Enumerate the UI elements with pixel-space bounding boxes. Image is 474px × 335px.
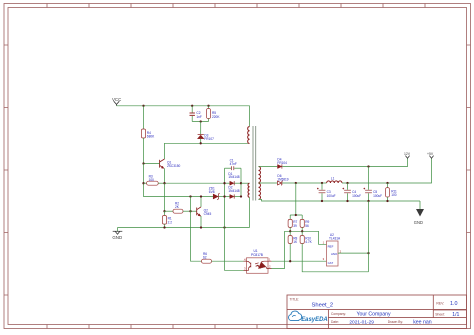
node junction Q2-collector-top xyxy=(200,195,202,197)
svg-text:C945: C945 xyxy=(204,212,212,216)
wire gnd column extension xyxy=(368,201,370,272)
svg-text:+5V: +5V xyxy=(427,152,434,156)
svg-text:56: 56 xyxy=(305,224,309,228)
wire secondary tap xyxy=(259,182,278,184)
svg-text:REV:: REV: xyxy=(436,302,444,306)
svg-text:680K: 680K xyxy=(147,135,155,139)
svg-text:Sheet_2: Sheet_2 xyxy=(312,303,334,309)
optocoupler U1 PC817B xyxy=(244,249,272,273)
node junction C3-5V xyxy=(321,182,323,184)
logo EasyEDA cloud xyxy=(289,311,302,321)
wire VCC rail xyxy=(117,106,250,127)
node junction base-R4 xyxy=(142,162,144,164)
U1 light arrows xyxy=(255,263,259,266)
resistor R4 xyxy=(141,106,155,164)
resistor R10 xyxy=(300,231,368,271)
svg-text:100uF: 100uF xyxy=(373,194,382,198)
node junction R6-column-top xyxy=(189,195,191,197)
svg-text:220K: 220K xyxy=(212,115,220,119)
svg-text:39: 39 xyxy=(293,224,297,228)
node +5V flag xyxy=(427,152,434,158)
svg-text:GND: GND xyxy=(112,235,122,240)
node junction C2-VCC xyxy=(191,105,193,107)
svg-text:Your Company: Your Company xyxy=(357,312,392,318)
node junction R11-5V xyxy=(386,182,388,184)
primary GND rail xyxy=(118,227,250,229)
diode D6 schottky xyxy=(277,174,288,185)
node junction ladder-left-D2 xyxy=(223,195,225,197)
ground GND primary flag xyxy=(112,228,122,241)
resistor R3 xyxy=(144,174,165,185)
node junction C4-5V xyxy=(346,182,348,184)
diode D3 xyxy=(197,122,214,144)
node junction Q2-gnd xyxy=(200,226,202,228)
svg-text:EasyEDA: EasyEDA xyxy=(301,316,328,323)
svg-text:PC817B: PC817B xyxy=(251,253,263,257)
capacitor C1 xyxy=(225,159,242,171)
shunt regulator U2 TL431A xyxy=(323,233,342,266)
node junction R7-R8 xyxy=(289,230,291,232)
wire snubber bottom xyxy=(192,121,208,123)
wire CAT row xyxy=(272,260,327,262)
transformer T1 primary winding xyxy=(248,127,250,144)
svg-text:100: 100 xyxy=(391,193,397,197)
ground GND secondary flag xyxy=(414,201,424,225)
wire aux top xyxy=(241,182,250,184)
resistor R5 xyxy=(206,106,220,122)
node junction R8-CAT xyxy=(289,260,291,262)
wire emitter row to ladder xyxy=(165,182,225,184)
transformer T1 secondary winding lower xyxy=(259,183,261,199)
svg-text:L1: L1 xyxy=(331,176,335,180)
node junction divider-5V xyxy=(295,182,297,184)
wire secondary bottom xyxy=(259,199,421,201)
resistor R7 xyxy=(288,215,297,231)
node junction R1-R2-emitter xyxy=(163,210,165,212)
resistor R8 xyxy=(288,231,298,261)
svg-text:47nF: 47nF xyxy=(230,162,237,166)
svg-text:100: 100 xyxy=(149,178,155,182)
svg-text:12V: 12V xyxy=(404,152,411,156)
svg-text:FR107: FR107 xyxy=(204,137,214,141)
svg-text:1N4148: 1N4148 xyxy=(228,189,239,193)
svg-text:ANO: ANO xyxy=(331,252,338,256)
node junction D3-collector xyxy=(200,142,202,144)
svg-text:1.0: 1.0 xyxy=(450,301,458,307)
node junction ladder-right-D2 xyxy=(240,195,242,197)
svg-text:GND: GND xyxy=(414,220,423,225)
wire opto cathode drop xyxy=(272,231,285,268)
svg-text:4.7K: 4.7K xyxy=(305,240,312,244)
node junction D3-snubber xyxy=(200,120,202,122)
svg-text:2SC3150: 2SC3150 xyxy=(167,164,181,168)
wire aux bottom return xyxy=(249,197,251,227)
node junction R4-VCC xyxy=(142,105,144,107)
diode D4 xyxy=(277,158,287,169)
svg-text:VCC: VCC xyxy=(112,97,121,102)
wire 5V rail xyxy=(282,158,431,183)
U1 LED xyxy=(258,262,266,269)
node junction R3-left xyxy=(142,182,144,184)
capacitor C4 xyxy=(343,183,362,201)
node junction divider-T xyxy=(295,214,297,216)
node VCC flag xyxy=(112,97,121,106)
resistor R9 xyxy=(300,215,309,231)
node junction R5-VCC xyxy=(207,105,209,107)
transformer T1 core xyxy=(253,126,256,201)
node junction C4-gnd2 xyxy=(346,200,348,202)
transformer T1 secondary winding upper xyxy=(259,167,261,183)
node junction C5-gnd2 xyxy=(367,200,369,202)
wire secondary top xyxy=(259,166,278,168)
U1 pin stubs xyxy=(244,261,272,270)
svg-text:2021-01-29: 2021-01-29 xyxy=(349,319,374,325)
transistor Q2 xyxy=(197,197,212,228)
diode D2 xyxy=(225,186,242,199)
node junction R9-R10 xyxy=(301,230,303,232)
node junction ANO-gnd xyxy=(367,252,369,254)
svg-text:Company:: Company: xyxy=(331,312,346,316)
svg-text:2.2: 2.2 xyxy=(168,220,173,224)
capacitor C5 xyxy=(364,167,383,202)
svg-text:FR104: FR104 xyxy=(277,161,287,165)
wire ladder left rail xyxy=(225,168,247,270)
wire divider feed xyxy=(290,183,302,215)
wire REF row xyxy=(285,231,327,244)
title block box xyxy=(287,295,467,329)
resistor R11 xyxy=(385,183,397,201)
node junction ladder-right-D1 xyxy=(240,182,242,184)
resistor R2 xyxy=(165,201,197,213)
svg-text:kee nan: kee nan xyxy=(413,319,432,325)
zener ZD1 xyxy=(209,186,225,200)
svg-text:1nF: 1nF xyxy=(196,115,202,119)
node junction C5-12V xyxy=(367,165,369,167)
svg-text:1N5819: 1N5819 xyxy=(277,178,288,182)
resistor R1 xyxy=(162,211,172,227)
svg-text:6V8: 6V8 xyxy=(209,190,215,194)
node junction ladder-left-D1 xyxy=(223,182,225,184)
wire collector rail xyxy=(165,143,250,159)
wire Q1 base xyxy=(144,163,160,165)
capacitor C3 xyxy=(317,183,336,201)
node junction R11-gnd2 xyxy=(386,200,388,202)
U1 phototransistor xyxy=(247,261,251,270)
wire R6 column xyxy=(191,197,202,262)
wire 12V rail xyxy=(282,158,407,166)
resistor R6 xyxy=(202,252,247,263)
svg-text:Drawn By:: Drawn By: xyxy=(388,320,403,324)
svg-text:100uF: 100uF xyxy=(327,194,336,198)
node junction C3-gnd2 xyxy=(321,200,323,202)
transformer T1 aux winding xyxy=(248,183,250,197)
wire base drop xyxy=(144,164,214,197)
diode D1 xyxy=(225,172,242,186)
node junction R6-column-base xyxy=(189,210,191,212)
svg-text:CAT: CAT xyxy=(328,261,334,265)
svg-text:REF: REF xyxy=(328,244,334,248)
node junction ladder-gnd xyxy=(223,226,225,228)
svg-text:1/1: 1/1 xyxy=(452,312,459,318)
wire ANO to gnd column xyxy=(338,252,369,254)
svg-text:TITLE:: TITLE: xyxy=(290,297,300,301)
svg-text:TL431A: TL431A xyxy=(329,237,341,241)
svg-text:Sheet:: Sheet: xyxy=(435,313,445,317)
svg-text:100uF: 100uF xyxy=(352,194,361,198)
node 12V flag xyxy=(404,152,411,158)
capacitor C2 xyxy=(190,106,202,122)
svg-text:62: 62 xyxy=(203,255,207,259)
node junction R1-gnd xyxy=(163,226,165,228)
svg-text:1N4148: 1N4148 xyxy=(228,175,239,179)
inductor L1 xyxy=(327,176,342,183)
wire emitter down xyxy=(164,183,166,211)
svg-text:Date:: Date: xyxy=(331,320,339,324)
node junction emitter-R3 xyxy=(163,182,165,184)
wire ladder right rail xyxy=(240,168,242,196)
transistor Q1 xyxy=(160,159,181,183)
